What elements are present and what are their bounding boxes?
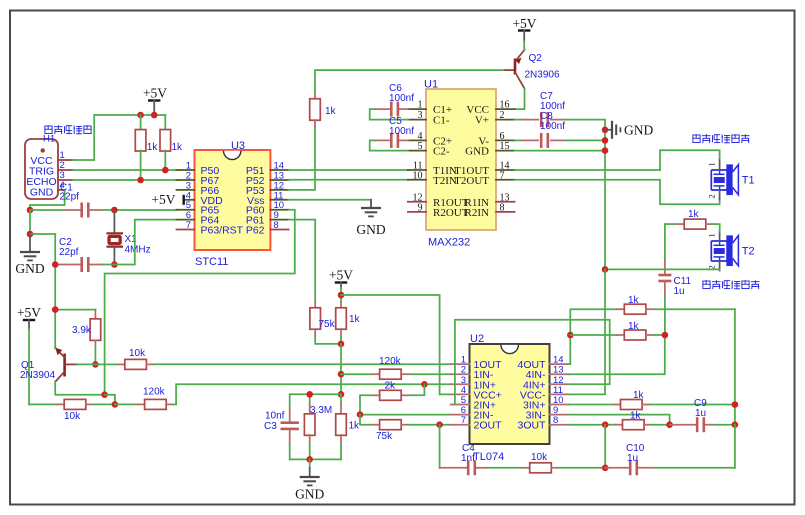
svg-text:2: 2 — [707, 194, 717, 198]
svg-text:120k: 120k — [379, 356, 402, 367]
junction dot C2 left — [52, 261, 59, 268]
resistor 3.9k — [55, 310, 100, 365]
svg-text:STC11: STC11 — [195, 256, 228, 268]
U1 pin 13 stub — [496, 201, 515, 203]
resistor 1k (bias) — [336, 295, 361, 344]
wire GND column upper — [604, 130, 606, 270]
wire 120k up to 1IN+ row — [176, 384, 424, 404]
svg-text:1u: 1u — [674, 286, 685, 297]
U1 pin 11 stub — [408, 169, 426, 171]
svg-text:C2-: C2- — [433, 146, 450, 158]
capacitor C3 10nf — [264, 394, 299, 459]
capacitor C11 1u — [658, 224, 691, 335]
wire right col C10 — [734, 425, 736, 468]
svg-text:100nf: 100nf — [389, 126, 414, 137]
resistor 1k (4OUT upper) — [570, 295, 735, 335]
svg-text:+5V: +5V — [512, 16, 536, 31]
svg-text:3.9k: 3.9k — [72, 325, 92, 336]
junction dot pin3/2k — [421, 381, 428, 388]
capacitor C2 22pf — [55, 237, 114, 272]
wire gnd branch down — [29, 210, 31, 234]
svg-text:75k: 75k — [376, 431, 393, 442]
svg-text:U2: U2 — [470, 333, 484, 345]
svg-text:2N3906: 2N3906 — [525, 70, 560, 81]
U3 pin numbers — [186, 161, 284, 232]
wire 2IN+ to 4IN+ link — [455, 320, 610, 405]
svg-text:TL074: TL074 — [473, 451, 504, 463]
svg-text:3OUT: 3OUT — [517, 420, 546, 432]
junction dot rail/+5V stem — [151, 112, 158, 119]
U3 pin 6 stub — [177, 219, 195, 221]
resistor 1k pull-up A (x=140) — [135, 115, 158, 180]
U2 pin 8 stub — [550, 424, 570, 426]
wire H1 VCC to +5V rail — [73, 115, 165, 160]
resistor 1k (to ground) — [336, 394, 360, 459]
svg-text:1k: 1k — [349, 314, 361, 325]
svg-text:+5V: +5V — [17, 305, 41, 320]
junction dot bottom rail — [112, 401, 119, 408]
junction dot C10 left — [602, 465, 609, 472]
resistor 1k pull-up B (x=165) — [160, 115, 183, 170]
junction dot gndcol/3.9k — [52, 306, 59, 313]
junction dot bias/C3 rail — [338, 391, 345, 398]
junction dot 3.9k/base — [92, 361, 99, 368]
ground GND (sideways, MAX232) — [605, 121, 653, 139]
mcu U3 STC11 body — [195, 150, 271, 250]
U1 pin numbers — [413, 100, 510, 214]
wire Vss to ground — [289, 200, 371, 208]
wire T1OUT feed — [515, 169, 660, 171]
svg-text:U3: U3 — [231, 140, 245, 152]
resistor 120k (1IN- series) — [341, 356, 451, 379]
U2 pin 11 stub — [550, 393, 570, 395]
svg-text:R2IN: R2IN — [465, 207, 490, 219]
resistor 10k (C4 row) — [523, 452, 606, 473]
svg-text:T2OUT: T2OUT — [454, 175, 489, 187]
resistor 1k (3IN+ series) — [569, 390, 735, 410]
svg-text:22pf: 22pf — [59, 247, 79, 258]
transducer T1 (transmit head) — [707, 160, 755, 200]
wire H1 GND pin down-left — [30, 190, 65, 210]
wire P60 long run to Q1 area — [105, 210, 295, 395]
svg-text:2k: 2k — [385, 381, 397, 392]
wire 3OUT col down — [604, 425, 606, 468]
transducer T2 (receive head) — [707, 231, 755, 271]
wire Q1 emitter up — [54, 348, 56, 350]
wire T1 loop bottom — [660, 180, 720, 204]
svg-text:2OUT: 2OUT — [474, 420, 503, 432]
resistor 3.3M — [304, 394, 332, 459]
svg-text:1k: 1k — [628, 321, 640, 332]
U1 pin 4 stub — [408, 139, 426, 141]
wire bias column — [340, 344, 342, 394]
U1 pin 2 stub — [496, 119, 515, 121]
junction dot collector/P60 — [101, 391, 108, 398]
wire 4IN- up — [569, 335, 665, 374]
junction dot C9 right — [732, 421, 739, 428]
resistor 1k (T2 series) — [665, 209, 720, 232]
capacitor C6 100nf — [370, 83, 415, 120]
svg-text:MAX232: MAX232 — [428, 237, 470, 249]
svg-text:1: 1 — [707, 233, 717, 237]
H1 pin numbers — [60, 150, 65, 191]
resistor 120k (bottom rail) — [115, 387, 176, 410]
junction dot TRIG/1kB — [162, 167, 169, 174]
resistor 10k (bottom rail) — [29, 399, 115, 422]
U1 pin 3 stub — [408, 119, 426, 121]
wire P51 to U1 T1IN (row A) — [289, 169, 408, 171]
U3 pin 14 stub — [270, 169, 288, 171]
U1 pin 15 stub — [496, 150, 515, 152]
junction dot 2OUT/C4 — [436, 421, 443, 428]
junction dot gnd stem — [602, 127, 609, 134]
svg-text:GND: GND — [15, 261, 44, 276]
ground GND (U3 Vss) — [356, 200, 385, 237]
svg-text:1: 1 — [707, 162, 717, 166]
svg-text:100nf: 100nf — [389, 93, 414, 104]
U1 pin 6 stub — [496, 139, 515, 141]
opamp U2 TL074 body — [470, 344, 550, 444]
capacitor C4 1nf — [440, 443, 523, 475]
label STC11 — [195, 256, 228, 268]
svg-text:GND: GND — [295, 487, 324, 502]
U3 pin 8 stub — [270, 229, 288, 231]
label 超声波发射头 — [692, 134, 749, 143]
transistor Q2 2N3906 — [505, 50, 560, 89]
U1 pin 1 stub — [408, 108, 426, 110]
svg-text:10k: 10k — [64, 411, 81, 422]
svg-text:P63/RST: P63/RST — [201, 225, 244, 237]
U2 pin 6 stub — [451, 414, 470, 416]
junction dot X1 bottom — [111, 261, 118, 268]
junction dot right col C9 top — [732, 401, 739, 408]
capacitor C10 1u — [605, 443, 735, 475]
svg-text:10k: 10k — [129, 348, 146, 359]
wire C3 bottom rail — [290, 458, 341, 460]
svg-text:V+: V+ — [475, 115, 489, 127]
wire collector node to bottom rail — [105, 395, 115, 405]
U3 pin 10 stub — [270, 209, 288, 211]
wire gnd col to Q1 emitter — [54, 347, 56, 349]
resistor 1k (3OUT feedback) — [569, 411, 670, 430]
junction dot 3.3M top — [306, 391, 313, 398]
svg-text:1k: 1k — [633, 390, 645, 401]
resistor 2k (feedback) — [360, 381, 424, 415]
junction dot 2k/2IN+ — [357, 411, 364, 418]
capacitor C7 100nf — [515, 91, 605, 130]
svg-text:GND: GND — [30, 187, 54, 199]
svg-text:1k: 1k — [172, 142, 184, 153]
svg-text:GND: GND — [465, 146, 489, 158]
U1 pin 14 stub — [496, 169, 515, 171]
junction dot C1/X1 top — [111, 207, 118, 214]
U3 pin 11 stub — [270, 199, 288, 201]
U3 pin 9 stub — [270, 219, 288, 221]
designator H1 — [43, 134, 55, 145]
wire Q2 base line — [315, 70, 505, 93]
junction dot C1-left — [27, 207, 34, 214]
H1 pin names — [26, 155, 56, 199]
svg-text:75k: 75k — [319, 319, 336, 330]
svg-text:+5V: +5V — [329, 268, 353, 283]
wire 2OUT down to C4 — [439, 425, 441, 468]
wire T2OUT feed — [515, 179, 660, 181]
junction dot 4OUT node — [567, 332, 574, 339]
power +5V port (U3 VDD) — [151, 192, 183, 207]
label 超声波接口 — [44, 125, 91, 134]
svg-text:Q2: Q2 — [529, 53, 543, 64]
U1 pin names — [433, 104, 489, 219]
U2 pin 5 stub — [451, 404, 470, 406]
wire X1 bottom to U3 P64 — [114, 220, 176, 265]
junction dot gnd branch — [27, 231, 34, 238]
svg-text:3.3M: 3.3M — [310, 405, 332, 416]
resistor 1k (4OUT lower) — [570, 321, 665, 340]
svg-text:1k: 1k — [630, 411, 642, 422]
H1 pin 2 stub — [58, 169, 73, 171]
svg-text:+5V: +5V — [143, 86, 167, 101]
U2 pin 7 stub — [451, 424, 470, 426]
U3 pin 13 stub — [270, 179, 288, 181]
svg-text:R2OUT: R2OUT — [433, 207, 469, 219]
junction dot 75k/1k bottoms — [338, 341, 345, 348]
svg-text:1nf: 1nf — [461, 453, 475, 464]
power +5V port (Q2 emitter) — [512, 16, 536, 50]
U2 pin numbers — [461, 355, 564, 427]
wire Q1 collector down — [55, 381, 104, 395]
capacitor C9 1u — [670, 398, 735, 432]
U2 pin 10 stub — [550, 404, 570, 406]
svg-text:GND: GND — [356, 222, 385, 237]
U1 pin 10 stub — [408, 179, 426, 181]
wire Q2 collector to U1 VCC — [515, 89, 525, 110]
svg-text:10nf: 10nf — [265, 411, 285, 422]
junction dot 3OUT/C10 col — [602, 421, 609, 428]
U1 pin 7 stub — [496, 179, 515, 181]
U3 pin 7 stub — [177, 229, 195, 231]
wire TRIG row (H1.2 - U3.P50) — [73, 169, 177, 171]
label TL074 — [473, 451, 504, 463]
wire T1 loop top — [660, 150, 720, 170]
U3 pin 4 stub — [184, 199, 195, 201]
svg-text:1k: 1k — [349, 421, 361, 432]
U3 pin 1 stub — [177, 169, 195, 171]
U2 pin names — [474, 359, 547, 432]
H1 pin 3 stub — [58, 179, 73, 181]
wire VCC- to ground col — [569, 269, 605, 394]
svg-text:1k: 1k — [325, 106, 337, 117]
designator U3 — [231, 140, 245, 152]
junction dot gnd pin15 — [602, 147, 609, 154]
resistor 1k (Q2 base) — [310, 93, 337, 127]
U2 pin 3 stub — [451, 383, 470, 385]
crystal X1 4MHz — [107, 210, 151, 265]
resistor 75k (2OUT feedback) — [360, 415, 451, 442]
H1 pin 1 stub — [58, 159, 73, 161]
svg-text:U1: U1 — [424, 79, 438, 91]
wire 2IN+ row — [360, 414, 451, 416]
capacitor C5 100nf — [370, 116, 415, 151]
wire P53 to 1k column — [289, 127, 315, 190]
junction dot 4IN-/C11 — [662, 332, 669, 339]
svg-text:T1: T1 — [742, 175, 755, 187]
wire base row to U2 1OUT — [153, 363, 450, 365]
wire Q1 base row — [77, 363, 118, 365]
U2 pin 1 stub — [451, 363, 470, 365]
wire 1IN+ to U2 pin3 — [424, 383, 450, 385]
U3 pin 2 stub — [177, 179, 195, 181]
wire C3 top rail — [290, 393, 341, 395]
svg-text:T2: T2 — [742, 246, 755, 258]
svg-text:120k: 120k — [143, 387, 166, 398]
resistor 75k (P61 load) — [310, 302, 341, 344]
U2 pin 14 stub — [550, 363, 570, 365]
designator U1 — [424, 79, 438, 91]
power +5V port (top-left rail) — [143, 86, 167, 116]
power +5V port (bottom-left) — [17, 305, 41, 404]
U1 pin 9 stub — [408, 211, 426, 213]
svg-text:C3: C3 — [264, 421, 277, 432]
U2 pin 12 stub — [550, 383, 570, 385]
capacitor C1 22pf — [30, 183, 177, 218]
wire T2 bottom row — [605, 268, 720, 270]
wire 3IN- jog down — [569, 415, 670, 425]
wire U1 GND pin to column — [515, 150, 605, 152]
junction dot bottom rail gnd — [306, 456, 313, 463]
U3 pin names — [201, 165, 265, 237]
junction dot bias/1IN- — [338, 371, 345, 378]
wire gnd branch to C2 column — [30, 234, 55, 348]
wire 1k upper to right column — [734, 309, 736, 425]
U1 pin 12 stub — [408, 201, 426, 203]
svg-text:1u: 1u — [695, 408, 706, 419]
U3 pin 5 stub — [177, 209, 195, 211]
svg-text:1k: 1k — [147, 142, 159, 153]
svg-text:10k: 10k — [531, 452, 548, 463]
H1 pin 4 stub — [58, 189, 65, 191]
wire +5V to U2 VCC+ — [341, 295, 451, 394]
svg-text:1k: 1k — [688, 209, 700, 220]
svg-text:2N3904: 2N3904 — [20, 370, 55, 381]
wire P61 down to 75k — [289, 220, 316, 302]
svg-text:+5V: +5V — [151, 192, 175, 207]
svg-text:4MHz: 4MHz — [125, 245, 151, 256]
svg-text:22pf: 22pf — [60, 192, 80, 203]
U3 pin 3 stub — [177, 189, 195, 191]
svg-text:1u: 1u — [627, 453, 638, 464]
resistor 10k (base series) — [118, 348, 154, 369]
ground GND (bottom middle) — [295, 459, 324, 501]
wire ECHO row (H1.3 - U3.P67) — [73, 179, 177, 181]
ground GND (left) — [15, 234, 44, 276]
svg-text:GND: GND — [624, 123, 653, 138]
label MAX232 — [428, 237, 470, 249]
U2 pin 4 stub — [451, 393, 470, 395]
wire 4OUT up — [569, 335, 570, 364]
wire P52 to U1 T2IN (row B) — [289, 179, 408, 181]
U1 pin 5 stub — [408, 150, 426, 152]
svg-text:1k: 1k — [628, 295, 640, 306]
label 超声波接收头 — [702, 280, 759, 289]
svg-text:C1-: C1- — [433, 115, 450, 127]
junction dot 3IN-/C9 — [666, 421, 673, 428]
U2 pin 13 stub — [550, 373, 570, 375]
U1 pin 8 stub — [496, 211, 515, 213]
junction dot gnd C8 — [602, 137, 609, 144]
svg-text:100nf: 100nf — [540, 121, 565, 132]
svg-text:H1: H1 — [43, 134, 55, 145]
svg-text:P62: P62 — [246, 225, 265, 237]
U2 pin 2 stub — [451, 373, 470, 375]
U1 pin 16 stub — [496, 108, 515, 110]
power +5V port (middle) — [329, 268, 353, 296]
connector H1 header box — [25, 139, 58, 199]
designator U2 — [470, 333, 484, 345]
U3 pin 12 stub — [270, 189, 288, 191]
ic U1 MAX232 body — [426, 89, 496, 230]
junction dot +5V mid — [338, 292, 345, 299]
U2 pin 9 stub — [550, 414, 570, 416]
junction dot ECHO/1kA — [137, 177, 144, 184]
junction dot rail/1k — [137, 112, 144, 119]
transistor Q1 2N3904 — [20, 348, 77, 381]
junction dot T2 row / gnd col — [602, 266, 609, 273]
capacitor C8 100nf — [515, 111, 605, 148]
